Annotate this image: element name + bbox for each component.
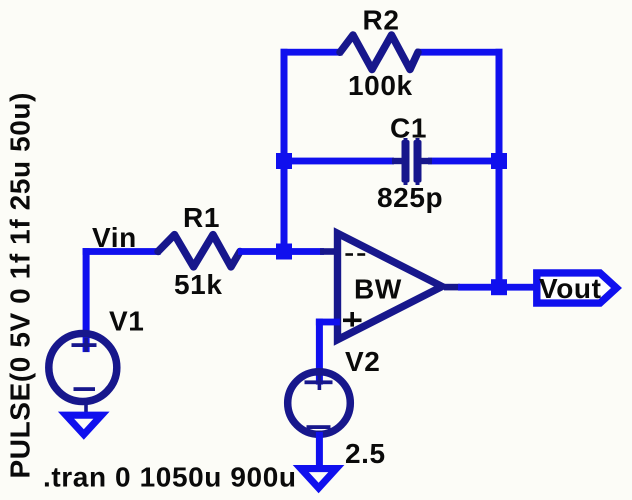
wire R1 to op-amp xyxy=(238,248,324,255)
ground below V1 xyxy=(66,415,102,434)
wire right vertical of feedback loop xyxy=(496,49,503,289)
svg-text:825p: 825p xyxy=(377,182,443,213)
voltage source V2 xyxy=(288,372,351,435)
node junction output xyxy=(491,279,507,295)
node junction right C1 xyxy=(491,153,507,169)
wire V1 vertical xyxy=(83,248,90,352)
svg-text:PULSE(0 5V 0 1f 1f 25u 50u): PULSE(0 5V 0 1f 1f 25u 50u) xyxy=(5,92,36,479)
svg-text:V2: V2 xyxy=(345,346,380,377)
wire top feedback right part xyxy=(416,49,503,56)
capacitor C1 xyxy=(392,138,432,185)
wire C1 left segment xyxy=(284,158,394,165)
node junction R1 / feedback xyxy=(276,244,292,260)
op-amp U1 inverting pin stub xyxy=(320,248,338,255)
op-amp minus label xyxy=(345,253,365,256)
wire V2 vertical xyxy=(316,319,323,385)
svg-text:51k: 51k xyxy=(174,269,223,300)
node junction left C1 xyxy=(276,153,292,169)
svg-text:Vin: Vin xyxy=(92,222,137,253)
svg-text:R2: R2 xyxy=(363,5,400,36)
op-amp U1 xyxy=(338,233,443,339)
wire op-amp plus input horizontal xyxy=(316,319,340,326)
svg-text:100k: 100k xyxy=(348,70,413,101)
svg-text:.tran 0 1050u 900u: .tran 0 1050u 900u xyxy=(43,462,297,493)
ground below V2 xyxy=(301,469,337,488)
voltage source V1 xyxy=(49,334,117,413)
wire output xyxy=(458,284,537,291)
wire left vertical of feedback loop xyxy=(281,49,288,255)
wire Vin horizontal xyxy=(83,248,161,255)
wire V2 to ground xyxy=(316,432,323,466)
svg-text:V1: V1 xyxy=(109,306,144,337)
svg-text:C1: C1 xyxy=(390,113,427,144)
svg-text:BW: BW xyxy=(354,274,402,305)
op-amp output pin stub xyxy=(444,284,460,291)
wire C1 right segment xyxy=(428,158,499,165)
flag Vout xyxy=(537,273,617,303)
op-amp plus label xyxy=(343,312,362,327)
resistor R2 xyxy=(340,35,418,70)
svg-text:Vout: Vout xyxy=(539,273,602,304)
resistor R1 xyxy=(158,235,240,267)
svg-text:R1: R1 xyxy=(183,202,220,233)
svg-text:2.5: 2.5 xyxy=(345,438,386,469)
wire top feedback xyxy=(281,49,343,56)
